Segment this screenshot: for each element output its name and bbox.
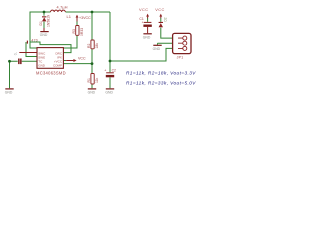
svg-text:L1: L1 [67,14,72,19]
wire D2 VCC stub [160,18,162,22]
svg-text:JP1: JP1 [177,56,184,60]
svg-text:+3VCC: +3VCC [79,16,91,20]
diode D1 [42,16,46,21]
ground under C2 [105,88,114,94]
svg-text:COMP: COMP [53,63,62,67]
wire C2 drop [109,61,111,88]
svg-text:R1=11k, R2=18k, Vout=3.3V: R1=11k, R2=18k, Vout=3.3V [126,70,196,75]
wire timing cap loop over IC [26,42,71,57]
wire top rail SWC node to +3VCC rail [10,12,181,88]
svg-text:0R33: 0R33 [80,28,84,36]
capacitor C1 polarized [139,17,151,33]
node switch/diode junction [43,11,46,14]
wire diode D2 to JP1 pin1 [161,28,181,38]
wire VCC pin stub [64,60,67,62]
svg-text:VCC: VCC [155,7,165,12]
node C3 corner junction [8,60,11,63]
junction node dots [8,11,111,65]
svg-text:GND: GND [153,47,161,51]
wire feedback divider column R2 [91,12,93,74]
ground under R1 [88,88,97,94]
svg-text:GND: GND [88,91,96,95]
wire output rail to JP1 [110,12,181,61]
wire left drop to IC pin SWC [30,12,37,48]
svg-text:C2: C2 [112,69,116,73]
wire R3 bottom to IC right pin DRC [63,22,77,49]
node divider top junction [91,11,94,14]
capacitor C3 [13,52,21,64]
ground under C1 [143,33,152,39]
inductor L1 coil [51,10,66,12]
IC U1 MC34063 box [19,48,63,69]
pin 3 [183,46,187,50]
wire C1 VCC stub [147,18,149,22]
svg-text:GND: GND [40,33,48,37]
ground under D1 [40,28,49,37]
svg-text:VCC: VCC [78,57,86,61]
svg-text:470: 470 [31,38,38,42]
svg-text:11k: 11k [95,77,99,83]
svg-text:R2: R2 [87,44,91,48]
svg-text:R3: R3 [72,29,76,33]
svg-text:MC34063SMD: MC34063SMD [36,71,66,76]
node comp divider junction [91,62,94,65]
svg-text:GND: GND [143,36,151,40]
svg-text:18k: 18k [95,43,99,49]
svg-text:4.7µH: 4.7µH [57,5,68,9]
svg-text:0,: 0, [13,52,17,55]
svg-text:R1=11k, R2=33k, Vout=5.0V: R1=11k, R2=33k, Vout=5.0V [126,80,196,85]
wire stub diode D1 bottom to ground [43,22,45,29]
svg-text:+: + [142,20,144,24]
pin SWE stub left [19,52,37,54]
supply VCC arrow right of IC [66,57,86,62]
svg-text:VCC: VCC [139,7,149,12]
svg-text:GND: GND [38,63,46,67]
svg-text:D1: D1 [39,21,43,25]
resistor R3 [76,26,79,36]
resistor R1 [91,74,94,85]
supply +3VCC arrow [76,15,91,22]
node output rail junction [109,60,112,63]
svg-text:R1: R1 [87,78,91,82]
wire JP1 pin2 to ground [158,43,181,45]
ground near JP1 pin2 [153,45,162,52]
capacitor CT timing [27,38,38,43]
wire R1 bottom to ground [91,84,93,88]
connector JP1 [173,33,191,53]
diode D2 [159,17,168,27]
pin 1 [183,36,187,40]
pin 2 [183,41,187,45]
svg-text:D2: D2 [163,17,167,21]
wire stub diode D1 top [43,12,45,16]
svg-text:1N5819: 1N5819 [46,15,50,27]
supply VCC above C1 [139,7,149,18]
supply VCC above D2 [155,7,165,18]
svg-text:+: + [104,69,106,73]
capacitor C2 polarized [104,69,116,78]
wire C3 row to IC left pin [10,60,38,62]
wire C3 node down to ground [9,61,11,88]
ground bottom left [5,88,14,94]
svg-text:GND: GND [5,91,13,95]
svg-text:GND: GND [105,91,113,95]
resistor R2 [91,40,94,49]
wire comp pin to divider node [64,63,93,65]
